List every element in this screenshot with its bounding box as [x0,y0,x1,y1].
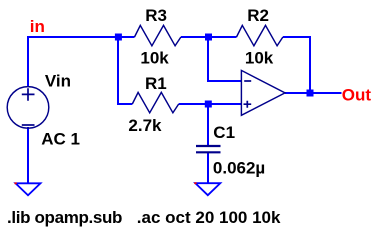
svg-text:0.062µ: 0.062µ [213,159,265,178]
svg-text:R1: R1 [145,74,167,93]
svg-text:Out: Out [342,85,372,104]
voltage source V1 circle [7,87,49,129]
op-amp inverting input mark [244,80,251,82]
svg-text:AC 1: AC 1 [41,130,80,149]
wire from C1 bottom plate down to ground [207,152,209,183]
svg-text:.lib opamp.sub: .lib opamp.sub [7,208,122,227]
wire from node B down and right to op-amp -in [208,37,241,81]
wire top-left corner: node in horizontal run [28,37,135,87]
capacitor C1 top plate [196,145,221,147]
voltage source plus mark [22,88,35,101]
svg-text:Vin: Vin [45,71,71,90]
ground below C1 [195,183,220,195]
wire from R2 right to feedback corner down to output node [283,37,310,93]
op-amp U1 triangle [241,70,285,115]
wire from node C down to C1 top plate [207,104,209,146]
resistor R1 [132,92,178,112]
node C junction (R1 / +in / C1) [205,101,212,108]
wire from Vin bottom to ground [27,127,29,183]
resistor R2 [237,25,283,45]
red artifact dot ground 1 [15,182,17,184]
wire from R1 right lead through node C to op-amp +in [179,103,241,105]
resistor R3 [135,25,181,45]
red artifact dot ground 2 [194,182,196,184]
voltage source minus mark [22,124,35,126]
svg-text:.ac oct 20 100 10k: .ac oct 20 100 10k [137,208,281,227]
svg-text:C1: C1 [213,123,235,142]
node A junction (in / R3 / R1) [115,34,122,41]
wire op-amp output to Out label [285,92,342,94]
node B junction (R3 / R2 / -in) [205,34,212,41]
capacitor C1 bottom plate [196,151,221,153]
node Out junction (output / feedback) [307,90,314,97]
svg-text:R3: R3 [145,6,167,25]
svg-text:2.7k: 2.7k [128,116,162,135]
wire from node A down and right to R1 left lead [118,37,132,104]
svg-text:in: in [30,17,45,36]
ground below Vin [16,183,41,195]
wire from R3 right lead through node B to R2 left lead [181,36,237,38]
op-amp non-inverting input mark [244,101,252,108]
svg-text:10k: 10k [140,49,169,68]
svg-text:R2: R2 [247,6,269,25]
svg-text:10k: 10k [245,48,274,67]
